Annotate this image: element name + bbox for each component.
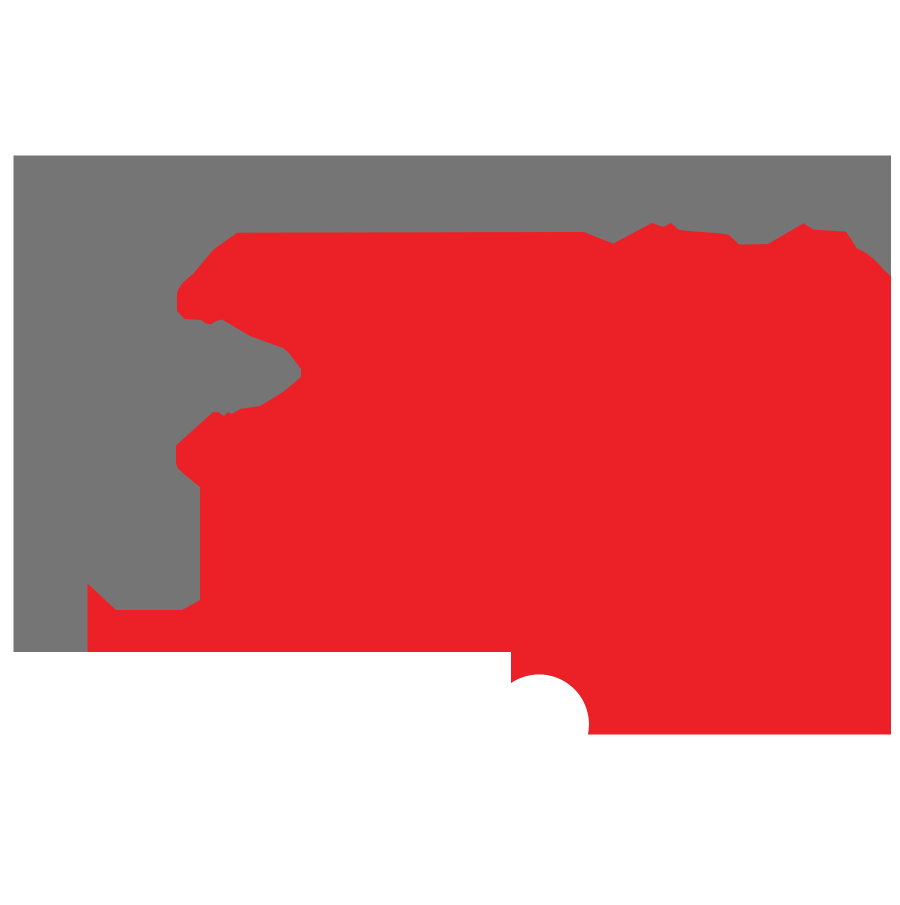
gray mass (union underlay) [14, 156, 892, 735]
red mass [88, 223, 892, 735]
